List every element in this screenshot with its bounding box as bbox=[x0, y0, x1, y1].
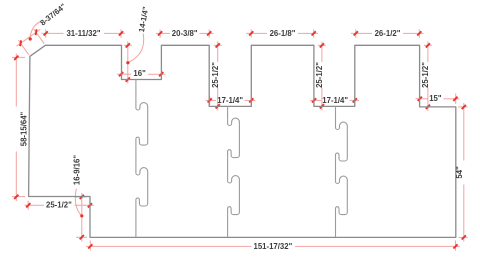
tick bbox=[26, 203, 30, 207]
tick bbox=[354, 31, 358, 35]
dim line bbox=[34, 29, 44, 44]
svg-text:25-1/2": 25-1/2" bbox=[211, 62, 220, 88]
svg-text:151-17/32": 151-17/32" bbox=[253, 242, 292, 251]
dim line bbox=[89, 241, 91, 251]
dim line bbox=[124, 44, 132, 46]
tick bbox=[14, 56, 18, 60]
svg-text:16-9/16": 16-9/16" bbox=[73, 155, 82, 185]
dim line bbox=[444, 98, 460, 100]
dim line bbox=[81, 193, 83, 242]
tick bbox=[119, 72, 123, 76]
tick bbox=[320, 104, 324, 108]
leader arc bbox=[75, 189, 81, 216]
dim line bbox=[245, 99, 256, 101]
dim line bbox=[209, 96, 211, 104]
tick bbox=[126, 43, 130, 47]
tick bbox=[426, 105, 430, 109]
dim line bbox=[427, 42, 429, 63]
dim line bbox=[351, 32, 372, 34]
dim line bbox=[18, 40, 28, 55]
countertop outline bbox=[29, 45, 456, 237]
dim line bbox=[418, 29, 420, 37]
tick bbox=[88, 244, 92, 248]
dim line bbox=[250, 29, 252, 37]
tick bbox=[88, 203, 92, 207]
tick bbox=[353, 98, 357, 102]
tick bbox=[80, 195, 84, 199]
dim line bbox=[89, 198, 91, 209]
leader dot bbox=[80, 214, 83, 217]
svg-text:26-1/8": 26-1/8" bbox=[270, 29, 296, 38]
dim line bbox=[75, 204, 95, 206]
dim line bbox=[217, 88, 219, 111]
svg-text:17-1/4": 17-1/4" bbox=[217, 96, 243, 105]
dim line bbox=[217, 42, 219, 63]
tick bbox=[249, 31, 253, 35]
tick bbox=[417, 31, 421, 35]
dim line bbox=[313, 96, 315, 104]
seam joint 3 bbox=[336, 106, 348, 237]
dim line bbox=[455, 241, 457, 251]
dim line bbox=[148, 73, 166, 75]
tick bbox=[216, 104, 220, 108]
dim line bbox=[463, 185, 465, 242]
dim line bbox=[459, 236, 468, 238]
tick bbox=[80, 235, 84, 239]
tick bbox=[312, 98, 316, 102]
svg-text:26-1/2": 26-1/2" bbox=[375, 29, 401, 38]
seam joint 1 bbox=[136, 80, 148, 238]
dim line bbox=[208, 29, 210, 37]
tick bbox=[208, 98, 212, 102]
dim line bbox=[424, 44, 432, 46]
svg-text:15": 15" bbox=[429, 94, 442, 103]
dim line bbox=[321, 88, 323, 111]
tick bbox=[20, 40, 21, 46]
dim line bbox=[45, 29, 47, 37]
dim line bbox=[350, 99, 360, 101]
svg-text:20-3/8": 20-3/8" bbox=[172, 29, 198, 38]
dim line bbox=[298, 32, 318, 34]
leader arc bbox=[30, 22, 40, 39]
dim line bbox=[206, 99, 217, 101]
svg-text:58-15/64": 58-15/64" bbox=[19, 111, 28, 146]
leader dot bbox=[126, 61, 129, 64]
dim line bbox=[310, 99, 321, 101]
svg-text:54": 54" bbox=[455, 166, 464, 179]
tick bbox=[158, 31, 162, 35]
dim line bbox=[156, 32, 170, 34]
dim line bbox=[25, 204, 45, 206]
dim line bbox=[463, 103, 465, 161]
dim line bbox=[27, 201, 29, 210]
dim line bbox=[117, 73, 131, 75]
dim line bbox=[15, 152, 17, 202]
svg-text:31-11/32": 31-11/32" bbox=[66, 29, 100, 38]
dim line bbox=[458, 106, 468, 108]
dim line bbox=[246, 32, 267, 34]
dim line bbox=[17, 29, 41, 46]
svg-text:25-1/2": 25-1/2" bbox=[421, 62, 430, 88]
tick bbox=[36, 29, 37, 35]
tick bbox=[119, 31, 123, 35]
dim line bbox=[15, 54, 17, 107]
svg-text:17-1/4": 17-1/4" bbox=[322, 96, 348, 105]
tick bbox=[462, 235, 466, 239]
leader dot bbox=[29, 37, 32, 40]
dim line bbox=[159, 29, 161, 37]
dim line bbox=[214, 44, 222, 46]
tick bbox=[453, 244, 457, 248]
dim line bbox=[127, 42, 129, 84]
leader arc bbox=[129, 34, 144, 63]
dim line bbox=[354, 96, 356, 104]
tick bbox=[320, 43, 324, 47]
tick bbox=[426, 43, 430, 47]
svg-text:25-1/2": 25-1/2" bbox=[315, 62, 324, 88]
dim line bbox=[12, 56, 25, 58]
dim line bbox=[12, 196, 25, 198]
tick bbox=[159, 72, 163, 76]
tick bbox=[418, 97, 422, 101]
dim line bbox=[427, 88, 429, 111]
tick bbox=[44, 31, 48, 35]
dim line bbox=[455, 94, 457, 105]
svg-text:16": 16" bbox=[133, 69, 146, 78]
dim line bbox=[86, 245, 252, 247]
dim line bbox=[42, 32, 64, 34]
dim line bbox=[120, 29, 122, 37]
dim line bbox=[313, 29, 315, 37]
tick bbox=[216, 43, 220, 47]
tick bbox=[453, 97, 457, 101]
dim line bbox=[416, 98, 428, 100]
dim line bbox=[74, 196, 87, 198]
svg-text:25-1/2": 25-1/2" bbox=[46, 201, 72, 210]
dim line bbox=[76, 236, 87, 238]
tick bbox=[14, 195, 18, 199]
tick bbox=[207, 31, 211, 35]
dim line bbox=[355, 29, 357, 37]
tick bbox=[312, 31, 316, 35]
dim line bbox=[250, 96, 252, 104]
dim line bbox=[295, 245, 460, 247]
dim line bbox=[318, 44, 326, 46]
dim line bbox=[200, 32, 214, 34]
tick bbox=[126, 78, 130, 82]
tick bbox=[249, 98, 253, 102]
dim line bbox=[104, 32, 125, 34]
dim line bbox=[321, 42, 323, 63]
dim line bbox=[403, 32, 424, 34]
seam joint 2 bbox=[228, 106, 240, 237]
tick bbox=[462, 105, 466, 109]
